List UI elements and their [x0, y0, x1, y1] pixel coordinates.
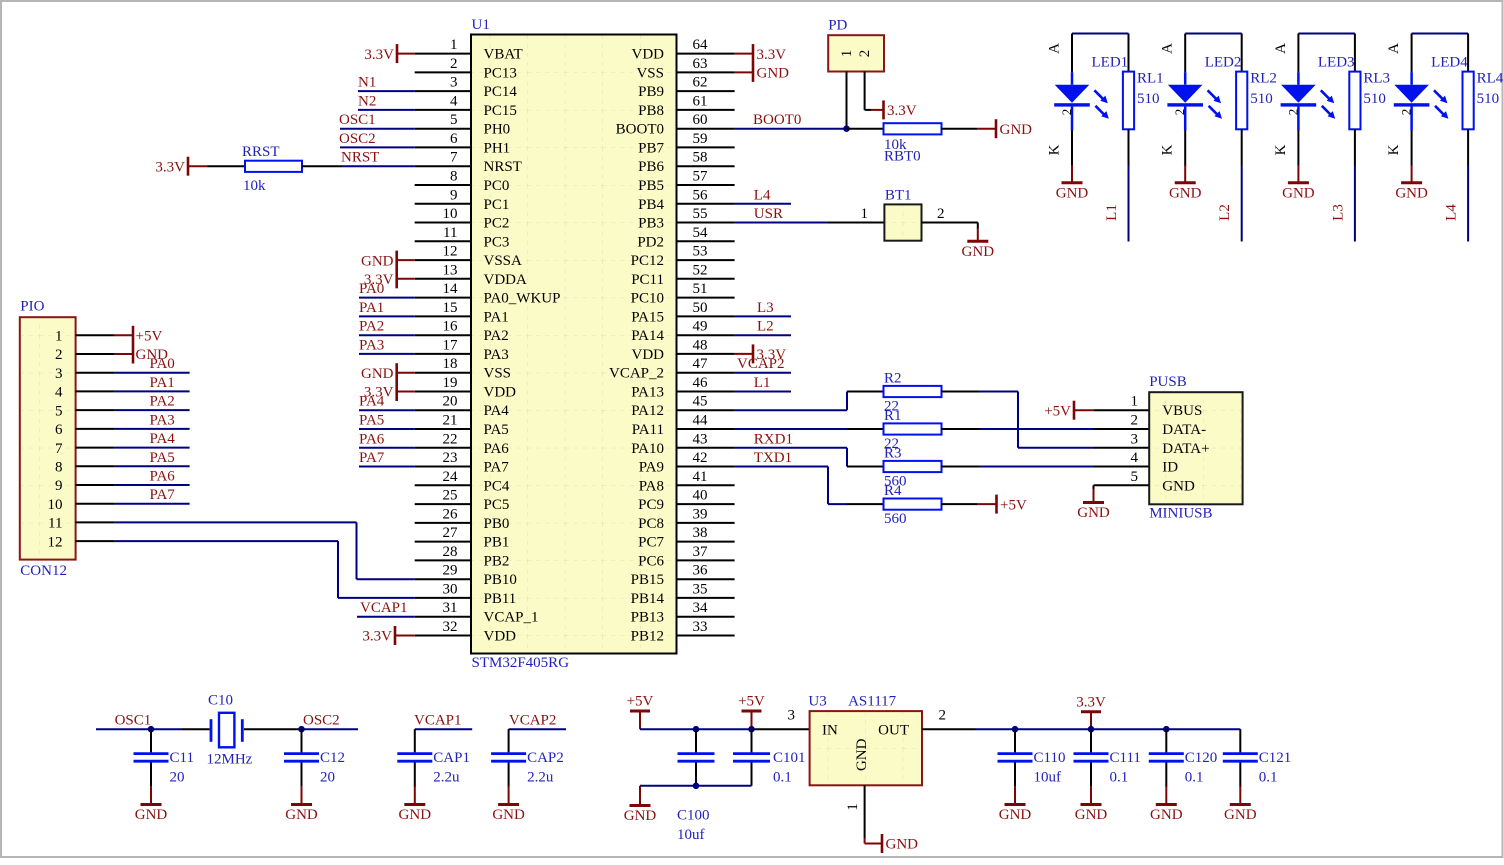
U1 pin 7 NRST [415, 150, 522, 176]
wire net PA5 at U1 [359, 428, 415, 430]
node L4 rotated label [1444, 204, 1460, 221]
svg-text:510: 510 [1250, 91, 1273, 107]
svg-text:33: 33 [693, 619, 708, 635]
U1 pin 38 PC7 [638, 525, 734, 551]
svg-text:GND: GND [1000, 122, 1033, 138]
wire PD pin 2 to 3.3V [865, 72, 871, 110]
U1 pin 51 PC10 [631, 281, 735, 307]
svg-text:GND: GND [1150, 807, 1183, 823]
capacitor C120 0.1 [1149, 729, 1218, 787]
ground GND at U3 pin 1 [865, 834, 919, 853]
svg-text:PA4: PA4 [484, 403, 510, 419]
resistor R4 560 [884, 483, 942, 527]
svg-text:PA4: PA4 [150, 431, 176, 447]
svg-text:CAP1: CAP1 [433, 750, 470, 766]
wire net RXD1 from U1 pin 43 to R3 [735, 448, 884, 467]
svg-text:PA3: PA3 [359, 337, 384, 353]
svg-text:K: K [1047, 144, 1063, 155]
svg-text:GND: GND [999, 807, 1032, 823]
svg-text:PB10: PB10 [484, 572, 517, 588]
PIO pin 7 [55, 441, 115, 457]
svg-text:PA7: PA7 [150, 487, 176, 503]
svg-text:7: 7 [55, 441, 63, 457]
svg-text:TXD1: TXD1 [754, 450, 792, 466]
svg-text:58: 58 [693, 150, 708, 166]
U1 pin 46 PA13 [631, 375, 734, 401]
U1 pin 45 PA12 [631, 394, 734, 420]
U1 pin 14 PA0_WKUP [415, 281, 561, 307]
svg-text:7: 7 [450, 150, 458, 166]
svg-text:19: 19 [443, 375, 458, 391]
svg-text:10k: 10k [243, 178, 266, 194]
svg-text:PA0_WKUP: PA0_WKUP [484, 291, 561, 307]
svg-text:62: 62 [693, 75, 708, 91]
power port 3.3V at rail [1076, 694, 1106, 729]
svg-text:PB13: PB13 [631, 610, 664, 626]
node L2 label [757, 319, 774, 335]
U1 pin 30 PB11 [415, 581, 517, 607]
connector PIO CON12 [20, 299, 115, 580]
svg-text:L2: L2 [1217, 204, 1233, 221]
svg-text:RRST: RRST [242, 144, 280, 160]
power port 3.3V at U1 pin 19 [364, 385, 415, 401]
junction +5V / C101 [748, 726, 755, 733]
wire net PA7 at PIO pin 10 [115, 503, 190, 505]
U1 pin 15 PA1 [415, 300, 509, 326]
svg-text:C111: C111 [1110, 750, 1141, 766]
U1 pin 41 PA8 [639, 469, 735, 495]
U1 pin 61 PB8 [638, 93, 734, 119]
U1 pin 5 PH0 [415, 112, 510, 138]
svg-text:VCAP1: VCAP1 [414, 713, 462, 729]
U1 pin 22 PA6 [415, 431, 510, 457]
svg-text:C12: C12 [320, 750, 345, 766]
svg-text:L3: L3 [757, 300, 774, 316]
svg-text:OSC1: OSC1 [115, 713, 152, 729]
svg-text:CAP2: CAP2 [527, 750, 564, 766]
wire net PA0 at U1 [359, 297, 415, 299]
svg-text:32: 32 [443, 619, 458, 635]
U1 pin 10 PC2 [415, 206, 510, 232]
ground GND at C11 [135, 786, 168, 823]
U1 pin 28 PB2 [415, 544, 510, 570]
power port +5V at C101 [738, 694, 765, 730]
node PA3 label [359, 337, 384, 353]
svg-text:VSS: VSS [484, 366, 512, 382]
svg-text:2: 2 [1172, 109, 1187, 116]
svg-text:LED1: LED1 [1092, 55, 1129, 71]
wire net PA1 at U1 [359, 315, 415, 317]
svg-text:4: 4 [1131, 450, 1139, 466]
svg-text:NRST: NRST [341, 150, 379, 166]
svg-text:BOOT0: BOOT0 [753, 112, 801, 128]
wire net VCAP1 (bottom) [415, 728, 472, 730]
svg-text:PA7: PA7 [484, 460, 510, 476]
svg-text:GND: GND [1224, 807, 1257, 823]
junction +5V / C100 [693, 726, 700, 733]
svg-text:C121: C121 [1259, 750, 1292, 766]
ground GND at LED3 cathode [1282, 165, 1315, 201]
svg-text:GND: GND [399, 807, 432, 823]
LED4 circuit top wire [1412, 33, 1469, 35]
resistor R1 22 [884, 408, 942, 452]
U1 pin 56 PB4 [638, 187, 734, 213]
svg-text:PC12: PC12 [631, 253, 664, 269]
svg-text:18: 18 [443, 356, 458, 372]
svg-text:CON12: CON12 [20, 563, 67, 579]
wire net PA3 at PIO pin 6 [115, 428, 190, 430]
svg-text:PC1: PC1 [484, 197, 510, 213]
U1 pin 4 PC15 [415, 93, 517, 119]
svg-text:PA3: PA3 [484, 347, 509, 363]
PIO pin 11 [48, 516, 115, 532]
svg-text:39: 39 [693, 506, 708, 522]
svg-text:OUT: OUT [878, 723, 909, 739]
wire RBT0 to GND [942, 128, 978, 130]
svg-text:PC15: PC15 [484, 103, 517, 119]
U1 pin 60 BOOT0 [616, 112, 735, 138]
svg-text:44: 44 [693, 413, 709, 429]
svg-text:3: 3 [450, 75, 458, 91]
svg-text:PC0: PC0 [484, 178, 510, 194]
svg-text:BOOT0: BOOT0 [616, 122, 664, 138]
PIO pin 3 [55, 366, 115, 382]
node PA7 label at PIO [150, 487, 176, 503]
svg-text:29: 29 [443, 563, 458, 579]
wire R3 to USB ID [942, 466, 1150, 468]
svg-text:VBAT: VBAT [484, 47, 523, 63]
svg-text:2.2u: 2.2u [527, 770, 554, 786]
svg-text:GND: GND [361, 366, 394, 382]
U1 pin 49 PA14 [631, 319, 734, 345]
svg-text:PA6: PA6 [359, 431, 385, 447]
svg-text:K: K [1160, 144, 1176, 155]
PIO pin 9 [55, 478, 115, 494]
LED2 circuit top wire [1185, 33, 1242, 35]
regulator U3 AS1117 [808, 693, 922, 785]
svg-text:12: 12 [443, 244, 458, 260]
svg-text:PA11: PA11 [632, 422, 664, 438]
svg-text:52: 52 [693, 262, 708, 278]
svg-text:PA14: PA14 [631, 328, 664, 344]
svg-text:PC10: PC10 [631, 291, 664, 307]
U1 pin 26 PB0 [415, 506, 510, 532]
U1 pin 44 PA11 [632, 413, 735, 439]
svg-text:59: 59 [693, 131, 708, 147]
svg-text:PB9: PB9 [638, 84, 664, 100]
svg-text:GND: GND [962, 244, 995, 260]
wire OSC1 to crystal C10 [182, 728, 210, 730]
svg-text:GND: GND [1075, 807, 1108, 823]
svg-text:1: 1 [1131, 394, 1139, 410]
LED LED1 [1047, 34, 1129, 167]
U1 pin 12 VSSA [415, 244, 522, 270]
svg-text:10uf: 10uf [1034, 770, 1062, 786]
svg-text:A: A [1273, 43, 1289, 54]
svg-text:1: 1 [861, 206, 869, 222]
U1 pin 53 PC12 [631, 244, 735, 270]
svg-text:21: 21 [443, 413, 458, 429]
resistor R3 560 [884, 446, 942, 490]
svg-text:L4: L4 [1444, 204, 1460, 221]
resistor RRST 10k [242, 144, 302, 194]
svg-text:0.1: 0.1 [1110, 770, 1129, 786]
svg-text:27: 27 [443, 525, 459, 541]
svg-text:PB8: PB8 [638, 103, 664, 119]
wire ground rail below C100/C101 [640, 785, 752, 787]
svg-text:PA9: PA9 [639, 460, 664, 476]
wire net OSC1 [340, 128, 415, 130]
node L2 rotated label [1217, 204, 1233, 221]
svg-text:PC6: PC6 [638, 553, 664, 569]
capacitor C12 20 [284, 729, 345, 787]
svg-text:42: 42 [693, 450, 708, 466]
svg-text:23: 23 [443, 450, 458, 466]
svg-text:VCAP1: VCAP1 [360, 600, 408, 616]
svg-text:2: 2 [857, 50, 873, 58]
U1 pin 48 VDD [632, 337, 735, 363]
svg-text:MINIUSB: MINIUSB [1149, 506, 1212, 522]
svg-text:PA2: PA2 [484, 328, 509, 344]
svg-text:3.3V: 3.3V [155, 159, 185, 175]
svg-text:3.3V: 3.3V [757, 47, 787, 63]
wire net PA4 at PIO pin 7 [115, 447, 190, 449]
node VCAP1 label (bottom) [414, 713, 462, 729]
svg-text:PA7: PA7 [359, 450, 385, 466]
svg-text:6: 6 [55, 422, 63, 438]
svg-text:PA2: PA2 [150, 394, 175, 410]
wire crystal C10 to OSC2 [244, 728, 302, 730]
svg-text:RL2: RL2 [1250, 71, 1277, 87]
svg-text:1: 1 [845, 803, 861, 811]
svg-text:12: 12 [48, 534, 63, 550]
junction BOOT0 / PD1 / RBT0 [843, 125, 850, 132]
svg-text:PUSB: PUSB [1149, 374, 1187, 390]
U1 pin 6 PH1 [415, 131, 510, 157]
svg-text:PA10: PA10 [631, 441, 664, 457]
svg-text:+5V: +5V [627, 694, 654, 710]
svg-text:PB0: PB0 [484, 516, 510, 532]
svg-text:A: A [1386, 43, 1402, 54]
svg-text:GND: GND [361, 253, 394, 269]
LED LED4 [1386, 34, 1468, 167]
svg-text:PA5: PA5 [359, 413, 384, 429]
svg-text:K: K [1273, 144, 1289, 155]
node VCAP1 label [360, 600, 408, 616]
wire net L3 at U1 [735, 315, 791, 317]
svg-text:20: 20 [443, 394, 458, 410]
svg-text:L1: L1 [754, 375, 771, 391]
svg-text:C100: C100 [677, 808, 710, 824]
U1 pin 62 PB9 [638, 75, 734, 101]
node VCAP2 label (bottom) [509, 713, 557, 729]
svg-text:LED3: LED3 [1318, 55, 1355, 71]
svg-text:12MHz: 12MHz [207, 752, 253, 768]
svg-text:PC11: PC11 [631, 272, 664, 288]
svg-text:GND: GND [285, 807, 318, 823]
svg-text:VDD: VDD [484, 629, 517, 645]
svg-text:24: 24 [443, 469, 459, 485]
svg-text:VSSA: VSSA [484, 253, 523, 269]
node OSC1 label [339, 112, 376, 128]
U1 pin 57 PB5 [638, 169, 734, 195]
power port 3.3V at RRST [155, 157, 207, 176]
wire net PA3 at U1 [359, 353, 415, 355]
ground GND at C111 [1075, 786, 1108, 823]
wire 3.3V to RRST [208, 165, 246, 167]
svg-text:GND: GND [1162, 478, 1195, 494]
wire PD pin 1 to BOOT0 [846, 72, 848, 129]
svg-text:PH1: PH1 [484, 140, 511, 156]
wire net PA5 at PIO pin 8 [115, 465, 190, 467]
wire PIO pin 11 to U1 PB10 [115, 522, 415, 579]
U1 pin 54 PD2 [637, 225, 734, 251]
LED LED2 [1160, 34, 1242, 167]
svg-text:PA8: PA8 [639, 478, 664, 494]
node OSC2 label [339, 131, 376, 147]
node PA0 label at PIO [150, 356, 175, 372]
wire BOOT0 to RBT0 [847, 128, 884, 130]
wire net L1 at U1 pin 46 [735, 391, 791, 393]
power port 3.3V at U1 pin 32 [362, 626, 414, 645]
svg-text:2.2u: 2.2u [433, 770, 460, 786]
svg-text:RL1: RL1 [1137, 71, 1164, 87]
svg-text:L2: L2 [757, 319, 774, 335]
push button BT1 [884, 188, 921, 241]
ground GND at C110 [999, 786, 1032, 823]
svg-text:5: 5 [55, 403, 63, 419]
wire net L2 below RL2 [1241, 166, 1243, 242]
wire net VCAP2 (bottom) [509, 728, 566, 730]
power port 3.3V at U1 pin 64 [735, 44, 787, 63]
svg-text:GND: GND [854, 738, 870, 771]
svg-text:34: 34 [693, 600, 709, 616]
svg-text:U3: U3 [808, 693, 826, 709]
wire USR to BT1 pin 1 [828, 206, 884, 223]
svg-text:PB11: PB11 [484, 591, 517, 607]
svg-text:1: 1 [450, 37, 458, 53]
svg-text:L4: L4 [754, 187, 771, 203]
svg-text:PB6: PB6 [638, 159, 664, 175]
U1 pin 58 PB6 [638, 150, 734, 176]
svg-text:BT1: BT1 [885, 188, 912, 204]
U1 pin 17 PA3 [415, 337, 509, 363]
svg-text:560: 560 [884, 511, 907, 527]
svg-text:DATA+: DATA+ [1162, 441, 1209, 457]
power port +5V (left) [627, 694, 654, 730]
wire net NRST to U1 pin 7 [342, 165, 415, 167]
svg-text:PC14: PC14 [484, 84, 518, 100]
capacitor C100 10uf [677, 729, 715, 843]
svg-text:2: 2 [55, 347, 63, 363]
op-amp U1 STM32F405RG MCU body [471, 17, 677, 671]
PIO pin 1 [55, 329, 115, 345]
svg-text:+5V: +5V [136, 329, 163, 345]
svg-text:GND: GND [757, 66, 790, 82]
node PA5 label [359, 413, 384, 429]
wire net N2 [358, 109, 415, 111]
svg-text:STM32F405RG: STM32F405RG [472, 655, 570, 671]
svg-text:PA1: PA1 [150, 375, 175, 391]
resistor RL4 510 [1463, 34, 1504, 166]
node PA5 label at PIO [150, 450, 175, 466]
svg-text:16: 16 [443, 319, 459, 335]
svg-text:PC13: PC13 [484, 65, 517, 81]
svg-text:60: 60 [693, 112, 708, 128]
svg-text:49: 49 [693, 319, 708, 335]
svg-text:48: 48 [693, 337, 708, 353]
svg-text:PA1: PA1 [484, 309, 509, 325]
svg-text:3.3V: 3.3V [887, 103, 917, 119]
svg-text:4: 4 [450, 93, 458, 109]
svg-text:PB2: PB2 [484, 553, 510, 569]
power port 3.3V at U1 pin 13 [364, 272, 415, 288]
svg-text:PA0: PA0 [150, 356, 175, 372]
svg-text:VDD: VDD [484, 385, 517, 401]
svg-text:PA2: PA2 [359, 319, 384, 335]
svg-text:OSC2: OSC2 [339, 131, 376, 147]
wire net USR from U1 pin 55 [735, 222, 828, 224]
svg-text:PA4: PA4 [359, 394, 385, 410]
ground GND at C121 [1224, 786, 1257, 823]
U1 pin 18 VSS [415, 356, 511, 382]
svg-text:L3: L3 [1330, 204, 1346, 221]
svg-text:USR: USR [754, 206, 783, 222]
resistor RBT0 10k [884, 123, 942, 164]
svg-text:3: 3 [1131, 431, 1139, 447]
svg-text:8: 8 [450, 169, 458, 185]
svg-text:3: 3 [55, 366, 63, 382]
svg-text:9: 9 [450, 187, 458, 203]
U1 pin 50 PA15 [631, 300, 734, 326]
svg-text:17: 17 [443, 337, 459, 353]
PUSB pin 4 ID [1131, 450, 1179, 476]
svg-text:56: 56 [693, 187, 709, 203]
svg-text:R3: R3 [884, 446, 902, 462]
ground GND at CAP1 [399, 786, 432, 823]
svg-text:0.1: 0.1 [773, 770, 792, 786]
svg-text:26: 26 [443, 506, 459, 522]
svg-text:C110: C110 [1034, 750, 1066, 766]
svg-text:5: 5 [450, 112, 458, 128]
ground GND at LED4 cathode [1395, 165, 1428, 201]
svg-text:LED2: LED2 [1205, 55, 1242, 71]
svg-text:37: 37 [693, 544, 709, 560]
resistor RL1 510 [1123, 34, 1164, 166]
wire net PA2 at PIO pin 5 [115, 409, 190, 411]
svg-text:GND: GND [492, 807, 525, 823]
wire net PA6 at U1 [359, 447, 415, 449]
svg-text:PB5: PB5 [638, 178, 664, 194]
svg-text:6: 6 [450, 131, 458, 147]
svg-text:R2: R2 [884, 371, 902, 387]
power port +5V at USB VBUS [1044, 401, 1094, 420]
svg-text:GND: GND [624, 808, 657, 824]
PUSB pin 5 GND [1131, 469, 1195, 495]
svg-text:10uf: 10uf [677, 827, 705, 843]
U1 pin 64 VDD [632, 37, 735, 63]
svg-text:55: 55 [693, 206, 708, 222]
svg-text:PB15: PB15 [631, 572, 664, 588]
LED3 circuit top wire [1298, 33, 1355, 35]
wire +5V rail to U3 IN [640, 708, 810, 730]
svg-text:C11: C11 [170, 750, 194, 766]
U1 pin 9 PC1 [415, 187, 510, 213]
junction rail / C110 [1012, 726, 1019, 733]
junction rail / C120 [1163, 726, 1170, 733]
svg-text:N2: N2 [358, 93, 376, 109]
svg-text:VCAP_1: VCAP_1 [484, 610, 539, 626]
